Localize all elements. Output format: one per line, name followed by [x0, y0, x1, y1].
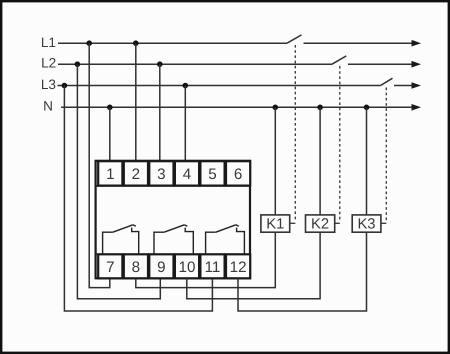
terminal 1 [98, 161, 122, 185]
wire L2 down to terminal 3 [159, 64, 161, 161]
wire L2 bus right segment [348, 63, 413, 65]
coil K1 [261, 215, 290, 232]
wire L3 down to terminal 4 [184, 86, 186, 162]
svg-text:K1: K1 [266, 217, 284, 233]
svg-text:2: 2 [132, 166, 140, 183]
svg-text:K2: K2 [311, 217, 329, 233]
svg-text:K3: K3 [357, 217, 375, 233]
terminal 7 [98, 254, 122, 278]
wire N down to K2 coil [319, 107, 321, 215]
terminal 5 [200, 161, 224, 185]
svg-text:3: 3 [157, 166, 165, 183]
arrow L2 [412, 61, 422, 68]
wire L1 bus right segment [304, 42, 414, 44]
wire N bus [61, 106, 413, 108]
terminal 12 [226, 254, 250, 278]
terminal 3 [149, 161, 173, 185]
wire L2 bus left segment [58, 63, 332, 65]
wire L1 left drop to terminal 7 [89, 43, 110, 287]
svg-text:4: 4 [183, 166, 191, 183]
switch contact on L1 [287, 35, 302, 43]
wire K2 coil to terminal 10 [187, 232, 320, 299]
device outline [96, 161, 250, 278]
wire L1 down to terminal 2 [135, 43, 137, 161]
svg-text:5: 5 [208, 166, 216, 183]
svg-text:6: 6 [234, 166, 242, 183]
node L1 to terminal 2 wire [133, 40, 139, 46]
svg-text:7: 7 [106, 259, 114, 276]
svg-text:L1: L1 [41, 35, 56, 50]
wire K1 coil to terminal 8 [136, 232, 275, 287]
wire N down to K1 coil [274, 107, 276, 215]
relay contact 7-8 [103, 225, 139, 254]
svg-text:10: 10 [179, 259, 196, 276]
node N to K3 coil [364, 105, 370, 111]
device shelf above bottom terminals [96, 253, 250, 255]
coil K3 [352, 215, 381, 232]
terminal 2 [124, 161, 148, 185]
arrow L3 [412, 82, 422, 89]
wire K3 coil to terminal 12 [238, 232, 367, 311]
dashed mechanical link switch L3 to K3 [385, 88, 387, 222]
node N to K2 coil [317, 105, 323, 111]
dashed link tick into K3 [381, 222, 386, 224]
node L2 to left drop wire [75, 61, 81, 67]
wire L3 bus left segment [58, 85, 381, 87]
node L3 to terminal 4 wire [183, 83, 189, 89]
terminal 4 [175, 161, 199, 185]
svg-text:L3: L3 [41, 77, 56, 92]
wire L2 left drop to terminal 9 [77, 64, 160, 299]
node N to terminal 1 wire [107, 105, 113, 111]
dashed mechanical link switch L2 to K2 [339, 66, 341, 222]
switch contact on L2 [332, 56, 346, 64]
wire L3 left drop to terminal 11 [64, 86, 212, 312]
terminal 6 [226, 161, 250, 185]
svg-text:11: 11 [205, 259, 221, 276]
svg-text:12: 12 [230, 259, 247, 276]
terminal 10 [175, 254, 199, 278]
dashed mechanical link switch L1 to K1 [294, 45, 296, 222]
svg-text:1: 1 [106, 166, 114, 183]
wire N down to K3 coil [366, 107, 368, 215]
terminal 9 [149, 254, 173, 278]
wire L3 bus right segment [394, 85, 413, 87]
dashed link tick into K2 [335, 222, 340, 224]
svg-text:N: N [43, 99, 53, 114]
svg-text:8: 8 [132, 259, 140, 276]
svg-text:9: 9 [157, 259, 165, 276]
node N to K1 coil [273, 105, 279, 111]
device shelf under top terminals [96, 185, 250, 187]
terminal 11 [200, 254, 224, 278]
arrow L1 [412, 40, 422, 47]
dashed link tick into K1 [290, 222, 295, 224]
relay contact 11-12 [206, 225, 245, 254]
wire N down to terminal 1 [109, 107, 111, 161]
node L1 to left drop wire [86, 40, 92, 46]
switch contact on L3 [381, 78, 393, 85]
node L2 to terminal 3 wire [157, 61, 163, 67]
wire L1 bus left segment [58, 42, 287, 44]
coil K2 [306, 215, 335, 232]
relay contact 9-10 [154, 225, 193, 254]
svg-text:L2: L2 [41, 56, 56, 71]
arrow N [412, 104, 422, 111]
node L3 to left drop wire [62, 83, 68, 89]
terminal 8 [124, 254, 148, 278]
